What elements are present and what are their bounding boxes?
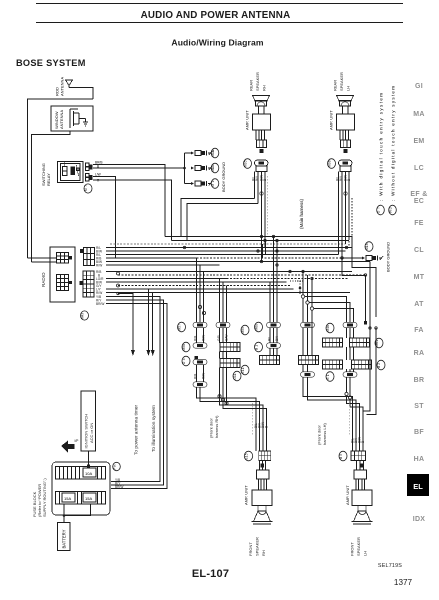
front door harness LH boundary: [349, 403, 351, 436]
svg-text:B: B: [361, 441, 365, 443]
column A oval D4: [182, 356, 190, 366]
wire R/Y drop to fuse area: [106, 300, 164, 485]
front speaker RH wire labels: [254, 422, 269, 428]
wire to illumination 1: [106, 289, 149, 351]
svg-text:E11: E11: [241, 367, 245, 373]
svg-text:SPEAKER: SPEAKER: [339, 72, 344, 91]
wire bus to column C: [270, 237, 277, 323]
svg-text:R/B: R/B: [194, 336, 198, 341]
front door harness RH label: [209, 415, 220, 438]
body ground right wire: [342, 257, 362, 259]
radio connector grid 1: [57, 253, 72, 264]
svg-text:MA: MA: [413, 111, 425, 118]
svg-text:LC: LC: [414, 165, 424, 172]
front speaker RH amp box: [252, 490, 272, 506]
rear speaker LH drop circle: [344, 192, 347, 195]
column E strips row 2: [323, 360, 372, 369]
wire to power antenna timer: [118, 294, 133, 352]
ignition switch label: [84, 414, 95, 449]
wire window antenna to bus: [32, 131, 71, 262]
body ground terminal 3: [191, 181, 212, 186]
svg-text:FRONT: FRONT: [248, 542, 253, 556]
rear speaker RH label: [249, 72, 267, 91]
front door harness LH label: [317, 423, 328, 445]
body ground right oval M18: [365, 242, 373, 252]
svg-text:R/W: R/W: [202, 373, 206, 379]
header top rule: [36, 3, 403, 5]
svg-text:AMP. UNIT: AMP. UNIT: [329, 110, 334, 130]
right margin wire 2: [369, 262, 371, 329]
main bus wires middle: [106, 272, 366, 293]
column E connector pill top: [343, 322, 357, 338]
rear speaker LH symbol: [337, 96, 354, 107]
svg-text:CL: CL: [414, 247, 424, 254]
arrow power antenna: [131, 350, 135, 356]
main harness staple wire 1: [181, 199, 255, 237]
main harness staple wire 2: [187, 204, 258, 241]
svg-text:M60: M60: [255, 324, 259, 331]
window antenna box: [51, 106, 93, 131]
svg-text:D11: D11: [233, 373, 237, 379]
header underline: [36, 22, 403, 24]
svg-text:10A: 10A: [85, 471, 92, 476]
wire relay BR/B to bus: [93, 165, 165, 237]
svg-text:RA: RA: [414, 350, 425, 357]
column B lower wires: [220, 368, 227, 406]
svg-text:IDX: IDX: [413, 516, 426, 523]
wire to illumination 2: [152, 293, 154, 352]
svg-text:RELAY: RELAY: [46, 173, 51, 186]
column E pill bottom: [343, 372, 357, 377]
rear speaker LH connector strip: [341, 140, 351, 153]
svg-text:L/W: L/W: [95, 173, 101, 177]
column A feed circles: [198, 305, 205, 314]
bus dashed wire: [110, 243, 346, 245]
svg-text:M57: M57: [178, 324, 182, 331]
body ground right terminal: [362, 255, 383, 260]
window antenna label: [54, 110, 64, 129]
column C labels 1: [268, 335, 280, 341]
svg-text:(Front door: (Front door: [317, 425, 322, 445]
svg-text:harness RH): harness RH): [214, 415, 219, 438]
svg-text:BODY GROUND: BODY GROUND: [221, 162, 226, 192]
relay connector oval M7: [84, 184, 92, 193]
column B oval E11: [241, 365, 249, 375]
relay box: [58, 161, 84, 183]
svg-text:M111: M111: [211, 149, 215, 156]
svg-text:BATTERY: BATTERY: [62, 529, 67, 548]
svg-text:ANTENNA: ANTENNA: [60, 77, 65, 96]
body ground terminal 1: [191, 151, 212, 156]
svg-text:E15: E15: [245, 453, 249, 459]
column A labels 2: [194, 373, 206, 379]
wire antenna feed into radio: [28, 257, 58, 259]
front speaker RH amp legs: [259, 479, 267, 490]
svg-text:(Main harness): (Main harness): [299, 198, 304, 229]
svg-text:harness LH): harness LH): [322, 423, 327, 445]
svg-text:REAR: REAR: [249, 80, 254, 91]
svg-text:ACC or ON: ACC or ON: [89, 423, 94, 443]
svg-text:RH: RH: [261, 550, 266, 556]
column B labels: [217, 335, 229, 341]
svg-text:B5: B5: [339, 454, 343, 459]
svg-text:BOSE SYSTEM: BOSE SYSTEM: [16, 58, 86, 68]
svg-text:BODY GROUND: BODY GROUND: [386, 242, 391, 272]
svg-text:AMP. UNIT: AMP. UNIT: [245, 110, 250, 130]
column B wires between strips: [220, 352, 227, 359]
column B strip 1: [220, 343, 240, 352]
svg-text:R/B: R/B: [194, 374, 198, 379]
svg-text:EC: EC: [414, 198, 424, 205]
body ground branch wires: [185, 153, 192, 184]
svg-text:SPEAKER: SPEAKER: [356, 537, 361, 556]
wire right margin to LH drop: [363, 328, 370, 411]
radio box: [50, 247, 75, 302]
rear speaker LH amp box: [337, 106, 355, 130]
body ground oval M2: [211, 179, 219, 189]
wire bus to column A: [197, 258, 204, 322]
wire relay B to body ground: [93, 167, 185, 169]
svg-text:SUPPLY ROUTING”.): SUPPLY ROUTING”.): [42, 478, 47, 517]
radio harness connector 1: [80, 248, 95, 266]
wire relay L/W down: [93, 177, 116, 258]
column B corner circles: [218, 395, 228, 405]
fuse block label: [32, 478, 47, 517]
rear speaker LH label: [333, 72, 351, 91]
rear speaker RH amp legs: [256, 130, 265, 140]
rear speaker RH symbol: [253, 96, 270, 107]
svg-text:RH: RH: [262, 85, 267, 91]
svg-text:To power antenna timer: To power antenna timer: [134, 404, 140, 455]
rear speaker RH amp box: [253, 106, 271, 130]
column C oval B1: [255, 342, 263, 352]
svg-text:REAR: REAR: [333, 80, 338, 91]
rear speaker RH wire labels: [252, 175, 268, 181]
svg-text:SPEAKER: SPEAKER: [255, 537, 260, 556]
svg-text:ANTENNA: ANTENNA: [59, 110, 64, 129]
body ground oval M111: [211, 148, 219, 158]
column A connector pair 2: [193, 356, 207, 387]
svg-text:M36: M36: [328, 160, 332, 167]
svg-text:FE: FE: [414, 220, 424, 227]
power supply arrow: [61, 439, 78, 453]
radio harness connector 2: [80, 271, 95, 297]
body ground oval M104: [211, 163, 219, 173]
svg-text:B/L: B/L: [268, 336, 272, 341]
svg-text:B2: B2: [377, 363, 381, 368]
rear speaker RH drop circle: [260, 192, 263, 195]
legend oval WD: [389, 205, 397, 215]
rod antenna symbol: [66, 80, 73, 88]
ignition feed terminal: [87, 465, 90, 468]
arrow illumination 1: [147, 350, 151, 356]
front speaker RH connector strip: [259, 451, 271, 461]
column C oval M60: [255, 322, 263, 332]
wire column D to column E row: [305, 297, 354, 323]
wire relay R down: [93, 180, 172, 241]
wire Y/B drop to fuse area: [106, 297, 160, 482]
svg-text:BR: BR: [414, 377, 425, 384]
svg-text:ST: ST: [414, 403, 424, 410]
column E wires between strips: [347, 347, 354, 360]
column A labels 1: [194, 335, 206, 341]
svg-text:1377: 1377: [394, 578, 413, 587]
front speaker LH symbol: [352, 506, 373, 525]
main harness dashed boundary: [349, 198, 352, 250]
switching relay label: [41, 163, 51, 186]
wire rod antenna down-left: [28, 99, 94, 258]
svg-text:MT: MT: [414, 274, 425, 281]
main bus junction dots: [117, 235, 367, 294]
right margin dots: [369, 327, 377, 329]
front door harness RH boundary: [252, 403, 254, 436]
ignition switch box: [81, 391, 96, 451]
rear speaker RH connector strip: [257, 140, 267, 153]
svg-text:Audio/Wiring Diagram: Audio/Wiring Diagram: [171, 38, 263, 48]
svg-text:WD: WD: [389, 206, 393, 213]
front speaker LH amp legs: [356, 479, 365, 490]
rear speaker LH amp legs: [340, 130, 349, 140]
wire bus to column B: [220, 279, 227, 323]
svg-text:AUDIO AND POWER ANTENNA: AUDIO AND POWER ANTENNA: [141, 10, 291, 21]
rear speaker RH oval M35: [244, 159, 252, 169]
rear speaker LH inline connector: [339, 160, 353, 172]
svg-text:(Front door: (Front door: [209, 418, 214, 438]
column C connector pair 1: [267, 322, 281, 348]
column E strips row 1: [323, 338, 370, 347]
svg-text:15A: 15A: [64, 496, 71, 501]
arrow illumination 2: [151, 350, 155, 356]
rear speaker LH wire labels: [336, 175, 352, 181]
column E wires to pill bottom: [347, 369, 354, 372]
fuse block oval FH: [113, 462, 121, 470]
svg-text:FH: FH: [113, 464, 117, 470]
svg-text:IGNITION SWITCH: IGNITION SWITCH: [84, 414, 89, 449]
right margin wire 3: [352, 236, 376, 317]
column D strip lower: [299, 356, 319, 365]
battery box: [58, 523, 71, 551]
rear speaker LH oval M36: [328, 159, 336, 169]
svg-text:GI: GI: [415, 83, 423, 90]
rear speaker RH inline connector: [255, 160, 269, 172]
svg-text:G/W: G/W: [225, 335, 229, 341]
radio connector oval M43: [81, 311, 89, 320]
extra junction dots: [260, 235, 278, 266]
svg-text:LH: LH: [346, 86, 351, 91]
svg-text:: With digital touch entry sys: : With digital touch entry system: [379, 93, 384, 201]
body ground terminal 2: [191, 166, 212, 171]
column B oval D11: [233, 371, 241, 381]
wire bus to column D: [303, 272, 312, 356]
column A wires to RH speaker: [197, 387, 267, 451]
svg-text:B: B: [265, 426, 269, 428]
svg-text:M35: M35: [244, 160, 248, 167]
front speaker LH terminal square: [360, 464, 364, 468]
svg-text:: Without digital touch entry: : Without digital touch entry system: [391, 86, 396, 201]
svg-text:M46: M46: [326, 325, 330, 332]
column D feed circles: [301, 295, 313, 310]
wire body ground junction down: [342, 258, 366, 321]
svg-text:R/W: R/W: [202, 335, 206, 341]
rear speaker LH drop wires: [339, 172, 350, 259]
column C strip lower: [260, 356, 280, 365]
wire BR/W drop to fuse area: [106, 304, 167, 489]
front speaker LH connector box: [354, 461, 367, 480]
rear speaker RH harness dotted: [267, 176, 269, 236]
main bus wires upper: [106, 248, 370, 266]
column A oval M58: [182, 342, 190, 352]
rear speaker RH drop wires: [255, 172, 266, 262]
harness wrap corners: [263, 241, 266, 259]
svg-text:D4: D4: [182, 358, 186, 364]
svg-text:HA: HA: [414, 456, 425, 463]
svg-text:E1: E1: [326, 374, 330, 379]
svg-text:15A: 15A: [85, 496, 92, 501]
radio wire labels lower: [96, 295, 104, 306]
svg-text:FRONT: FRONT: [350, 542, 355, 556]
battery junction dot: [63, 514, 66, 517]
column B strip 2: [220, 359, 240, 368]
svg-text:BR/W: BR/W: [96, 302, 104, 306]
svg-text:B/Y: B/Y: [275, 335, 279, 341]
front speaker RH terminal square: [260, 464, 264, 468]
column A oval M57: [178, 322, 186, 332]
column E corner circles: [345, 392, 352, 399]
fuse output labels: [115, 478, 123, 489]
rod antenna label: [55, 77, 65, 96]
svg-text:SEL719S: SEL719S: [378, 563, 402, 569]
wire battery to fuse: [63, 504, 65, 523]
column E oval M61: [375, 338, 383, 348]
front speaker LH wire labels: [351, 437, 366, 443]
svg-text:FA: FA: [414, 327, 424, 334]
front speaker LH oval B5: [339, 451, 347, 461]
window antenna elements: [70, 109, 79, 128]
column E wires to LH speaker: [347, 377, 364, 451]
wire battery wrap right: [64, 504, 91, 516]
svg-text:M18: M18: [365, 243, 369, 250]
svg-text:EF &: EF &: [410, 191, 427, 198]
front speaker LH label: [350, 537, 368, 556]
column E oval E1: [326, 372, 334, 382]
column D connector pill: [301, 322, 315, 355]
front speaker LH connector strip: [351, 451, 366, 461]
radio wire labels upper: [96, 246, 102, 268]
svg-text:I/P: I/P: [75, 439, 79, 443]
svg-text:G/R: G/R: [217, 335, 221, 341]
svg-text:AT: AT: [414, 301, 424, 308]
column B connector pair 1: [216, 322, 230, 343]
svg-text:B1: B1: [255, 345, 259, 350]
svg-text:BF: BF: [414, 429, 424, 436]
main bus junction circles: [117, 272, 120, 287]
wire rod antenna to bus: [69, 88, 93, 100]
svg-text:LH: LH: [363, 551, 368, 556]
svg-text:RADIO: RADIO: [41, 272, 46, 287]
fuse row 2: [56, 492, 106, 505]
wire antenna 2 feed into radio: [32, 261, 58, 263]
svg-text:SPEAKER: SPEAKER: [255, 72, 260, 91]
svg-text:R/W: R/W: [96, 264, 102, 268]
wire ignition to fuse: [88, 451, 90, 467]
svg-text:M58: M58: [182, 344, 186, 351]
front speaker RH label: [248, 537, 266, 556]
front speaker RH connector box: [257, 461, 270, 480]
radio wire labels middle: [96, 270, 104, 295]
right margin terminal square: [364, 321, 367, 324]
svg-text:EL: EL: [413, 482, 423, 491]
harness boundary dotted near column D: [290, 281, 304, 294]
svg-text:To illumination system: To illumination system: [151, 405, 157, 452]
svg-text:BR/W: BR/W: [115, 485, 123, 489]
front speaker RH oval E15: [244, 451, 252, 461]
legend oval DT: [377, 205, 385, 215]
front speaker LH amp box: [352, 490, 372, 506]
svg-text:EL-107: EL-107: [192, 568, 229, 580]
svg-text:AMP. UNIT: AMP. UNIT: [345, 485, 350, 505]
window antenna ground: [79, 119, 88, 127]
section tab EL highlighted: [407, 474, 429, 496]
bus top wire 2: [172, 240, 350, 242]
column D oval M46: [326, 323, 334, 333]
body ground junction: [183, 167, 186, 170]
radio connector grid 2: [57, 275, 72, 291]
column B oval M59: [241, 325, 249, 335]
svg-text:M104: M104: [211, 164, 215, 171]
column A connector pair 1: [193, 322, 207, 348]
column D wires to LH speaker: [303, 377, 356, 451]
column C wires to strip: [270, 348, 277, 356]
column D pill bottom: [301, 365, 315, 378]
fuse row 1: [56, 467, 106, 480]
svg-text:M59: M59: [241, 327, 245, 334]
fuse block box: [52, 462, 110, 515]
front speaker RH symbol: [252, 506, 273, 525]
bus top wire 1: [165, 236, 352, 238]
svg-text:M43: M43: [81, 313, 85, 319]
svg-text:EM: EM: [413, 138, 424, 145]
relay connector pins: [86, 163, 93, 181]
svg-text:AMP. UNIT: AMP. UNIT: [244, 485, 249, 505]
column E oval B2: [377, 360, 385, 370]
